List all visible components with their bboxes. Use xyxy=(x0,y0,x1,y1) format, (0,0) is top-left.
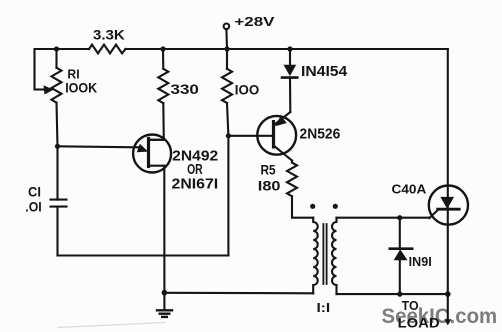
wire 330 top lead xyxy=(162,49,164,69)
wire R5 to primary top xyxy=(292,196,313,217)
svg-text:I:I: I:I xyxy=(317,300,331,315)
svg-text:R5: R5 xyxy=(261,162,276,178)
node load junction xyxy=(445,291,451,297)
diode D2 1N91 xyxy=(390,249,412,261)
wire 1N91 top lead xyxy=(399,218,401,249)
svg-text:2NI67I: 2NI67I xyxy=(172,176,219,192)
node emitter junction xyxy=(55,144,60,149)
wire 1N91 bottom lead xyxy=(399,260,401,294)
wire UJT base1 down xyxy=(163,166,165,293)
svg-text:IOO: IOO xyxy=(235,81,260,97)
wire bottom-left horizontal xyxy=(58,254,229,256)
capacitor C1 .01 xyxy=(51,200,67,207)
svg-text:TO: TO xyxy=(402,299,419,313)
node 1N91 bottom junction xyxy=(397,292,402,297)
svg-text:IOOK: IOOK xyxy=(65,81,97,96)
wire base horizontal xyxy=(228,135,273,137)
resistor 3.3K zigzag xyxy=(89,45,126,54)
node 1N91 top junction xyxy=(397,215,402,220)
wire emitter horizontal xyxy=(58,146,140,147)
transformer T1 primary winding xyxy=(313,218,318,294)
wire secondary bottom horizontal xyxy=(337,293,448,295)
wire SCR gate diagonal xyxy=(429,209,438,218)
svg-text:C40A: C40A xyxy=(392,182,427,197)
svg-text:.OI: .OI xyxy=(25,200,41,215)
transformer core xyxy=(323,224,326,284)
resistor 100 zigzag xyxy=(222,69,232,103)
svg-text:RI: RI xyxy=(67,68,79,82)
transformer phasing dot secondary xyxy=(333,204,338,209)
node 2N526 base junction xyxy=(226,133,231,138)
potentiometer wiper arrow xyxy=(35,88,46,90)
svg-text:I80: I80 xyxy=(258,177,281,193)
svg-text:IN4I54: IN4I54 xyxy=(301,64,347,80)
resistor R5 180 zigzag xyxy=(287,161,297,197)
unijunction transistor Q1 2N492 xyxy=(133,135,171,173)
node 330 top junction xyxy=(160,46,165,51)
svg-text:LOAD: LOAD xyxy=(398,316,440,331)
node ground junction xyxy=(162,290,168,296)
wire pot to C1 xyxy=(57,103,58,200)
scan artifact faint line xyxy=(58,323,165,328)
terminal +28V xyxy=(224,24,230,30)
wire C1 bottom lead xyxy=(56,207,58,256)
wire 330 to UJT base2 xyxy=(150,103,164,140)
node +28V junction xyxy=(224,46,229,51)
wire to load with arrow xyxy=(447,294,449,319)
resistor R1 100K zigzag xyxy=(52,68,62,103)
wire ground rail to transformer xyxy=(164,292,313,295)
svg-text:+28V: +28V xyxy=(234,14,275,29)
diode D1 1N4154 xyxy=(282,65,297,78)
svg-text:2N526: 2N526 xyxy=(300,125,341,142)
wire 100 top lead xyxy=(226,49,228,69)
node 1N4154 top junction xyxy=(287,46,292,51)
svg-text:CI: CI xyxy=(28,184,41,199)
wire top rail left segment xyxy=(35,49,90,90)
transformer T1 secondary winding xyxy=(332,218,337,294)
wire top rail right segment xyxy=(126,48,448,50)
wire 1N4154 cathode to 2N526 emitter xyxy=(289,78,291,112)
wire 1N4154 anode lead xyxy=(289,49,291,65)
ground xyxy=(157,293,172,317)
svg-text:IN9I: IN9I xyxy=(409,255,432,269)
wire pot top lead xyxy=(55,49,57,68)
wire secondary top to SCR gate xyxy=(337,217,430,219)
transistor Q2 2N526 xyxy=(257,112,296,161)
transformer phasing dot primary xyxy=(310,204,315,209)
resistor 330 zigzag xyxy=(158,69,168,103)
wire 100ohm branch vertical xyxy=(227,103,228,256)
svg-text:330: 330 xyxy=(171,81,200,97)
node pot top junction xyxy=(54,46,59,51)
wire +28V lead xyxy=(225,29,228,49)
SCR C40A xyxy=(429,186,468,225)
svg-text:3.3K: 3.3K xyxy=(93,27,125,43)
wire right rail xyxy=(447,49,449,294)
